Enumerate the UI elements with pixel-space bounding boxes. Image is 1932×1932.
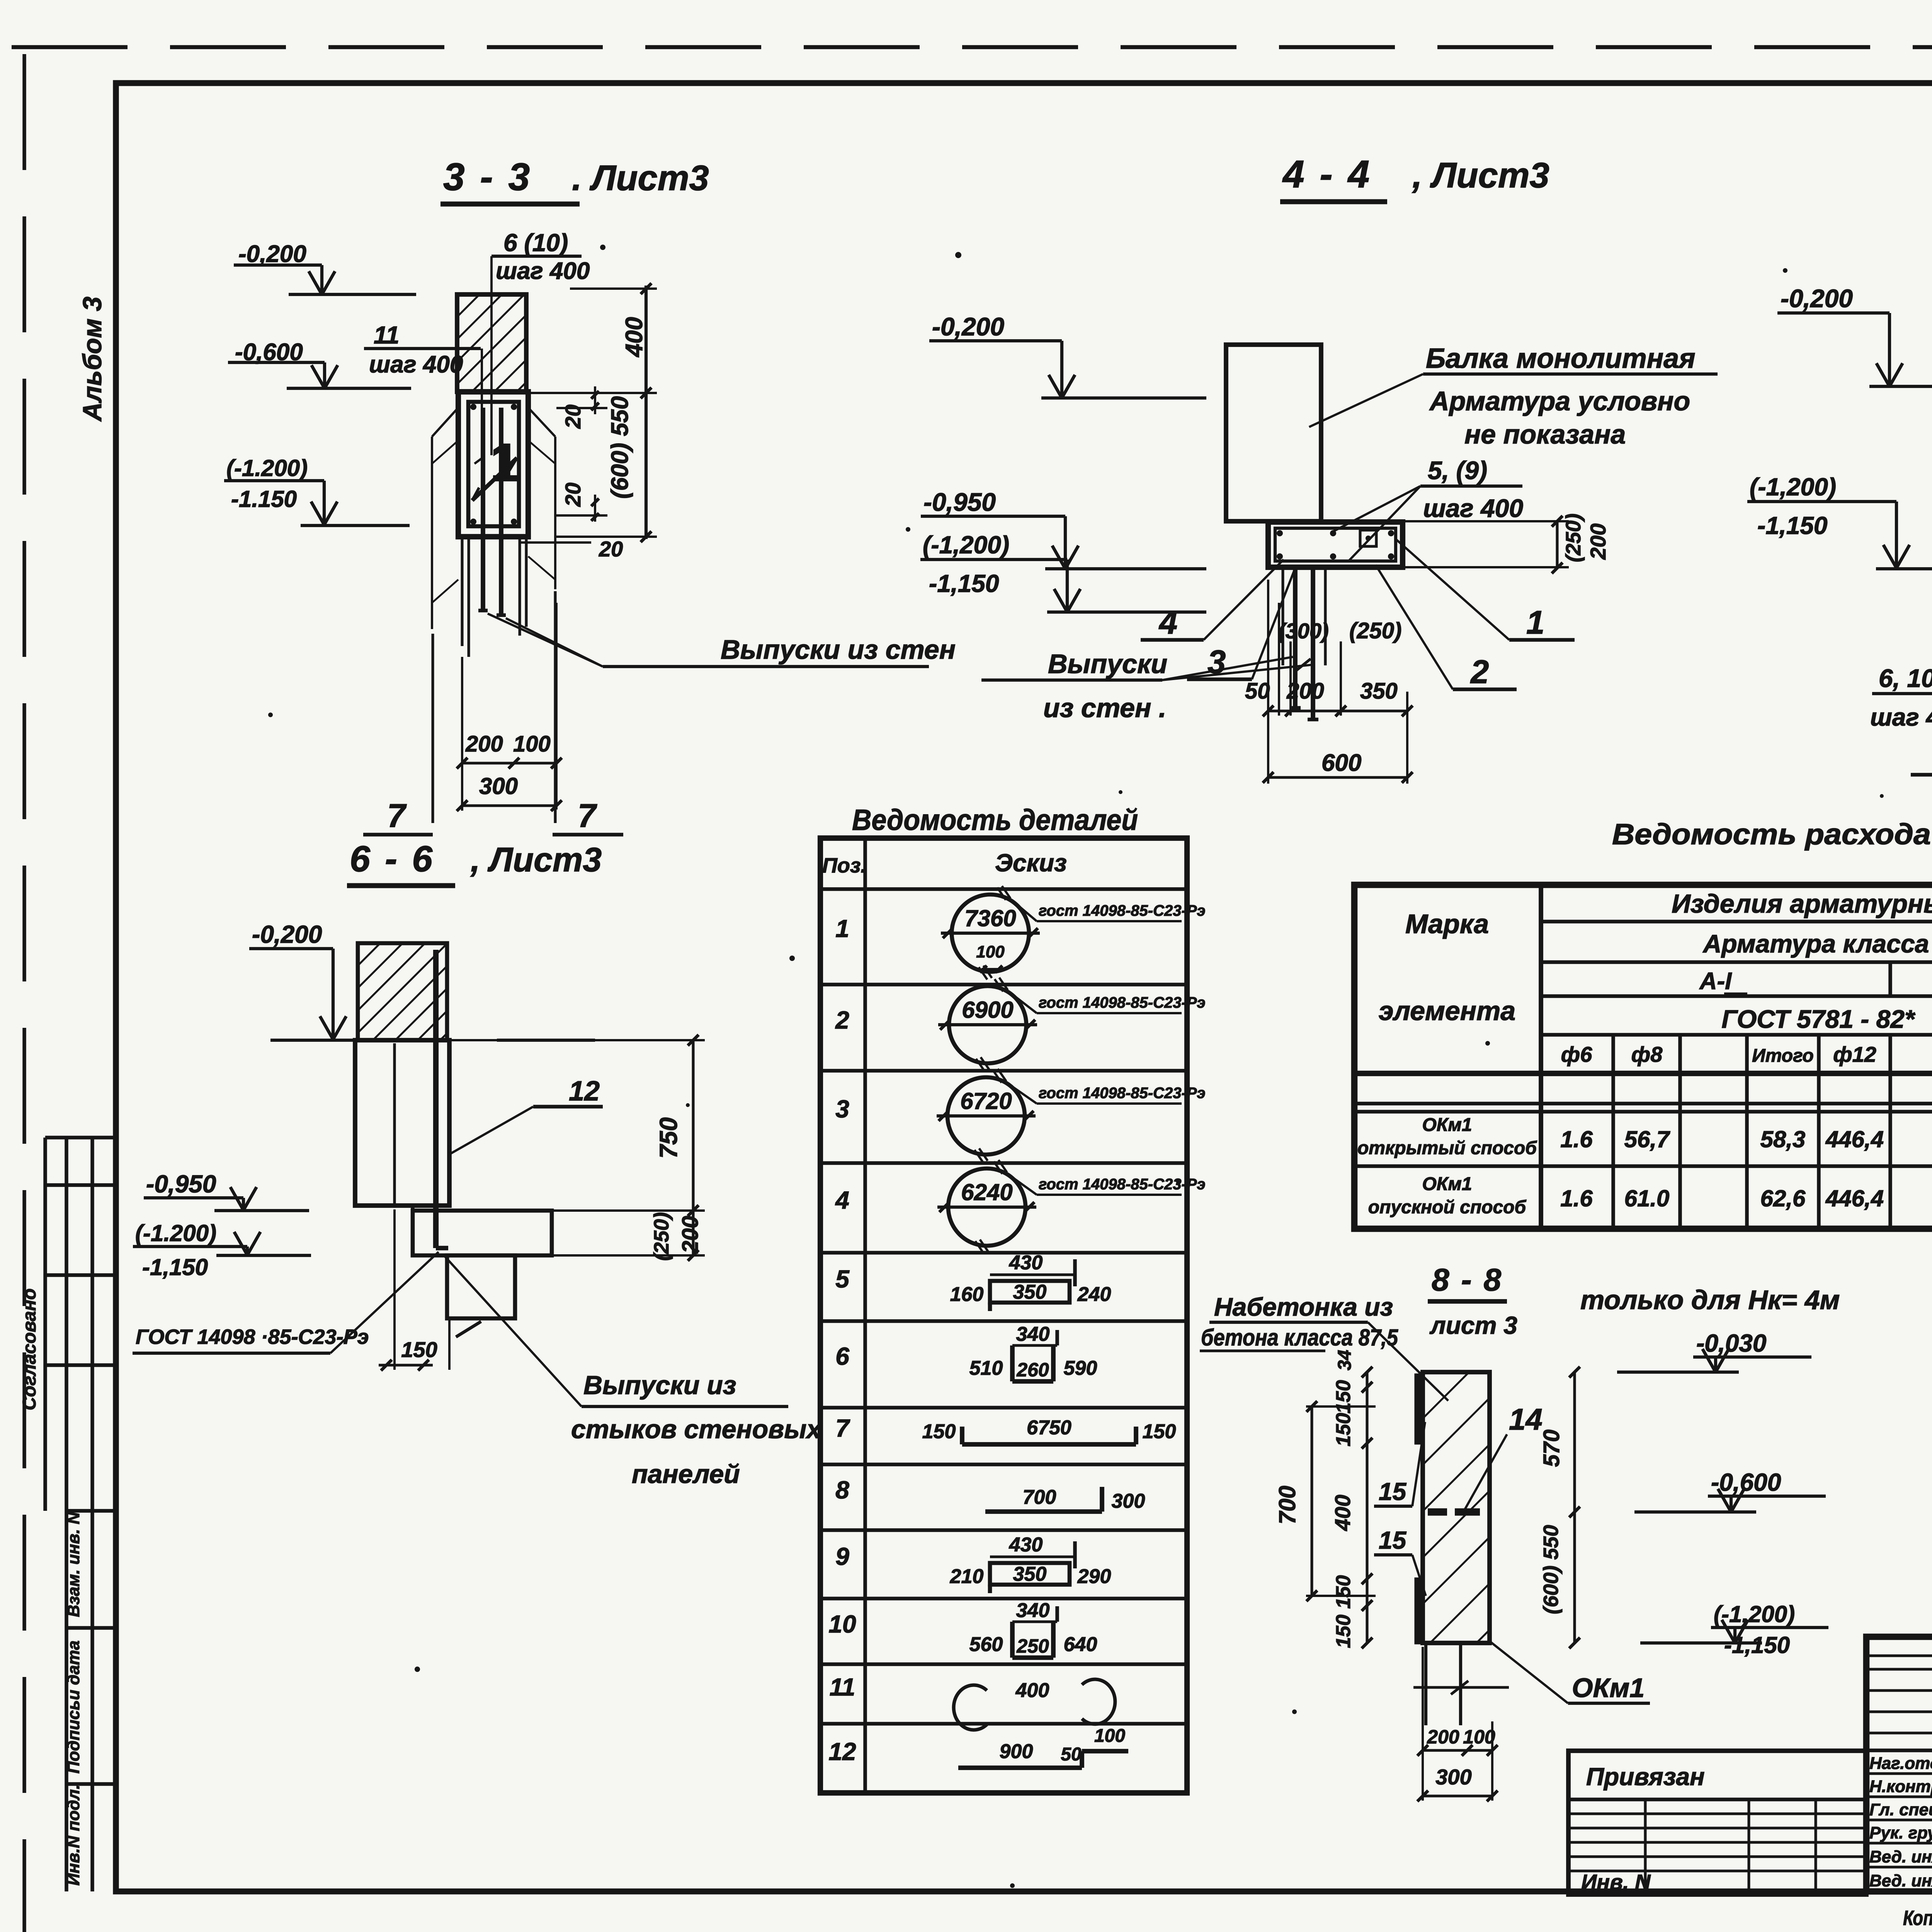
svg-text:6: 6 [835, 1342, 849, 1370]
svg-text:430: 430 [1009, 1534, 1043, 1556]
svg-text:350: 350 [1360, 679, 1398, 704]
svg-text:Рук. груп: Рук. груп [1869, 1823, 1932, 1842]
svg-text:-0,950: -0,950 [146, 1170, 216, 1198]
svg-text:5: 5 [835, 1265, 850, 1293]
svg-text:350: 350 [1013, 1563, 1047, 1585]
svg-text:640: 640 [1064, 1633, 1097, 1656]
svg-text:Итого: Итого [1752, 1046, 1814, 1066]
svg-text:290: 290 [1077, 1565, 1111, 1588]
svg-text:панелей: панелей [632, 1459, 740, 1489]
svg-text:3: 3 [835, 1095, 849, 1123]
svg-text:100: 100 [1463, 1726, 1495, 1748]
svg-text:Привязан: Привязан [1586, 1763, 1705, 1791]
svg-text:Изделия арматурные: Изделия арматурные [1672, 889, 1932, 918]
svg-text:200: 200 [678, 1216, 703, 1254]
svg-text:200: 200 [1286, 679, 1324, 704]
svg-text:Балка монолитная: Балка монолитная [1426, 343, 1696, 374]
svg-text:(-1.200): (-1.200) [135, 1220, 216, 1246]
svg-text:Арматура условно: Арматура условно [1429, 386, 1690, 416]
svg-text:-0,200: -0,200 [1781, 284, 1853, 313]
svg-text:210: 210 [950, 1565, 984, 1588]
svg-text:12: 12 [828, 1738, 856, 1765]
svg-text:-0,030: -0,030 [1696, 1329, 1766, 1357]
svg-text:700: 700 [1274, 1486, 1300, 1524]
svg-text:(250): (250) [650, 1212, 673, 1261]
svg-text:Инв. N: Инв. N [1581, 1870, 1651, 1894]
svg-text:11: 11 [830, 1673, 855, 1701]
svg-text:20: 20 [599, 537, 623, 561]
svg-text:58,3: 58,3 [1760, 1126, 1806, 1152]
svg-text:4 - 4: 4 - 4 [1282, 153, 1372, 196]
svg-text:750: 750 [655, 1117, 682, 1159]
svg-text:7: 7 [835, 1414, 850, 1442]
svg-text:560: 560 [969, 1633, 1003, 1656]
svg-text:А-I: А-I [1699, 968, 1732, 995]
svg-text:4: 4 [1158, 604, 1177, 641]
svg-text:8 - 8: 8 - 8 [1432, 1262, 1503, 1298]
svg-text:шаг 400: шаг 400 [369, 351, 463, 378]
svg-text:7: 7 [387, 798, 407, 834]
svg-text:61.0: 61.0 [1624, 1185, 1670, 1211]
svg-text:4: 4 [835, 1186, 849, 1214]
svg-text:шаг 400: шаг 400 [496, 258, 590, 284]
svg-text:150: 150 [1332, 1615, 1355, 1648]
svg-text:240: 240 [1077, 1283, 1111, 1306]
svg-text:(-1,200): (-1,200) [1750, 473, 1836, 501]
svg-text:1.6: 1.6 [1560, 1185, 1593, 1211]
svg-text:200: 200 [1586, 524, 1610, 560]
svg-text:-1,150: -1,150 [142, 1254, 208, 1280]
svg-text:400: 400 [1330, 1495, 1355, 1531]
svg-text:10: 10 [828, 1610, 856, 1638]
svg-text:(600) 550: (600) 550 [607, 396, 633, 498]
svg-text:150: 150 [1332, 1575, 1355, 1609]
svg-text:ОКм1: ОКм1 [1572, 1673, 1645, 1703]
svg-text:Выпуски из: Выпуски из [583, 1371, 736, 1400]
svg-text:ГОСТ 5781 - 82*: ГОСТ 5781 - 82* [1721, 1005, 1916, 1033]
svg-text:15: 15 [1379, 1478, 1407, 1505]
svg-text:-1,150: -1,150 [929, 570, 999, 597]
svg-text:340: 340 [1016, 1323, 1050, 1345]
svg-text:6720: 6720 [960, 1088, 1012, 1114]
svg-text:2: 2 [1470, 654, 1489, 690]
svg-text:Поз.: Поз. [822, 854, 866, 877]
svg-text:(300): (300) [1278, 619, 1329, 643]
svg-text:Ведомость расхода стали: Ведомость расхода стали на элемент, кг [1612, 818, 1932, 851]
svg-text:ОКм1: ОКм1 [1422, 1174, 1472, 1194]
svg-text:опускной способ: опускной способ [1368, 1197, 1527, 1218]
svg-text:Н.контр.: Н.контр. [1869, 1777, 1932, 1796]
svg-text:шаг 400: шаг 400 [1423, 494, 1523, 522]
svg-text:лист 3: лист 3 [1429, 1311, 1517, 1339]
svg-text:открытый способ: открытый способ [1357, 1138, 1537, 1158]
svg-text:100: 100 [1094, 1726, 1125, 1746]
svg-text:(600) 550: (600) 550 [1539, 1525, 1563, 1614]
svg-text:446,4: 446,4 [1825, 1185, 1884, 1211]
svg-text:Вед. инж: Вед. инж [1869, 1871, 1932, 1890]
svg-text:100: 100 [513, 731, 551, 757]
svg-text:Наг.отд.: Наг.отд. [1869, 1754, 1932, 1773]
svg-text:элемента: элемента [1379, 996, 1515, 1026]
svg-text:гост 14098-85-С23-Рэ: гост 14098-85-С23-Рэ [1039, 902, 1206, 919]
svg-text:5, (9): 5, (9) [1428, 456, 1487, 485]
svg-text:446,4: 446,4 [1825, 1126, 1884, 1152]
svg-text:300: 300 [1112, 1490, 1145, 1512]
svg-text:(-1,200): (-1,200) [1714, 1601, 1795, 1627]
svg-text:гост 14098-85-С23-Рэ: гост 14098-85-С23-Рэ [1039, 1176, 1206, 1193]
svg-text:Взам. инв. N: Взам. инв. N [64, 1512, 83, 1617]
svg-text:6240: 6240 [961, 1179, 1012, 1205]
svg-text:ф6: ф6 [1561, 1042, 1593, 1066]
svg-text:3 - 3: 3 - 3 [443, 155, 532, 199]
svg-text:6750: 6750 [1027, 1417, 1071, 1439]
svg-text:2: 2 [835, 1006, 849, 1034]
svg-text:20: 20 [561, 483, 585, 507]
svg-text:шаг 400: шаг 400 [1870, 703, 1932, 731]
svg-text:8: 8 [835, 1476, 849, 1504]
svg-text:260: 260 [1016, 1359, 1049, 1381]
svg-text:Набетонка из: Набетонка из [1214, 1293, 1393, 1321]
svg-text:-0,200: -0,200 [932, 312, 1004, 341]
svg-text:570: 570 [1539, 1430, 1564, 1467]
svg-text:400: 400 [1015, 1679, 1049, 1702]
svg-text:ОКм1: ОКм1 [1422, 1115, 1472, 1135]
svg-text:700: 700 [1023, 1486, 1056, 1509]
svg-text:6 (10): 6 (10) [503, 229, 568, 257]
svg-text:50: 50 [1245, 679, 1270, 704]
svg-text:-1.150: -1.150 [231, 486, 297, 512]
svg-text:350: 350 [1013, 1281, 1047, 1303]
svg-text:Подписьи дата: Подписьи дата [64, 1641, 83, 1774]
svg-text:не показана: не показана [1464, 419, 1626, 449]
svg-text:150: 150 [922, 1420, 956, 1443]
svg-text:только для Нк= 4м: только для Нк= 4м [1580, 1285, 1840, 1315]
svg-text:Гл. спец.: Гл. спец. [1869, 1800, 1932, 1819]
svg-text:, Лист3: , Лист3 [1412, 156, 1549, 195]
svg-text:340: 340 [1016, 1599, 1050, 1622]
svg-text:(-1,200): (-1,200) [923, 531, 1009, 559]
svg-text:12: 12 [569, 1076, 600, 1107]
svg-text:Согласовано: Согласовано [19, 1288, 40, 1410]
svg-text:гост 14098-85-С23-Рэ: гост 14098-85-С23-Рэ [1039, 1085, 1206, 1102]
svg-text:ф8: ф8 [1631, 1042, 1663, 1066]
svg-text:Вед. инж: Вед. инж [1869, 1847, 1932, 1866]
svg-text:Копировал Яни: Копировал Яни [1903, 1906, 1932, 1930]
svg-text:7: 7 [578, 798, 597, 834]
svg-text:6, 10: 6, 10 [1879, 664, 1932, 692]
svg-text:200: 200 [465, 731, 503, 757]
svg-text:6 - 6: 6 - 6 [350, 838, 435, 879]
svg-text:600: 600 [1321, 750, 1361, 776]
svg-text:Альбом 3: Альбом 3 [78, 296, 107, 422]
svg-text:6900: 6900 [962, 997, 1013, 1023]
svg-text:-0,950: -0,950 [923, 488, 996, 516]
svg-text:-0,200: -0,200 [238, 241, 306, 267]
svg-text:Арматура класса: Арматура класса [1702, 929, 1929, 958]
svg-text:150: 150 [1332, 1413, 1355, 1447]
svg-text:ГОСТ 14098 ·85-С23-Рэ: ГОСТ 14098 ·85-С23-Рэ [136, 1325, 369, 1349]
svg-text:Ведомость деталей: Ведомость деталей [852, 804, 1138, 837]
svg-text:1: 1 [1526, 604, 1544, 641]
svg-text:(-1.200): (-1.200) [226, 455, 308, 481]
svg-text:1.6: 1.6 [1560, 1126, 1593, 1152]
svg-text:900: 900 [1000, 1740, 1033, 1763]
svg-text:100: 100 [976, 942, 1005, 961]
svg-text:9: 9 [835, 1543, 849, 1570]
svg-text:50: 50 [1061, 1744, 1082, 1765]
svg-text:11: 11 [374, 321, 399, 349]
svg-text:(250): (250) [1562, 514, 1585, 562]
svg-text:510: 510 [969, 1357, 1003, 1379]
svg-text:Марка: Марка [1405, 909, 1489, 939]
svg-text:150: 150 [401, 1337, 437, 1362]
svg-text:(250): (250) [1349, 618, 1401, 643]
svg-text:-0,200: -0,200 [252, 920, 322, 948]
svg-text:400: 400 [621, 317, 648, 357]
svg-text:бетона класса 87,5: бетона класса 87,5 [1201, 1325, 1398, 1350]
svg-text:гост 14098-85-С23-Рэ: гост 14098-85-С23-Рэ [1039, 994, 1206, 1011]
svg-text:Инв.N подл.: Инв.N подл. [64, 1784, 83, 1886]
svg-text:250: 250 [1016, 1635, 1049, 1657]
svg-text:300: 300 [1435, 1765, 1471, 1789]
svg-text:300: 300 [479, 773, 518, 799]
svg-text:. Лист3: . Лист3 [572, 158, 709, 198]
svg-text:590: 590 [1064, 1357, 1097, 1379]
svg-text:150: 150 [1332, 1380, 1355, 1414]
svg-text:430: 430 [1009, 1252, 1043, 1274]
svg-text:ф12: ф12 [1833, 1042, 1876, 1066]
svg-text:Выпуски из стен: Выпуски из стен [721, 634, 956, 665]
svg-text:стыков стеновых: стыков стеновых [571, 1415, 822, 1444]
svg-text:1: 1 [835, 915, 849, 942]
svg-text:200: 200 [1427, 1726, 1459, 1748]
svg-text:150: 150 [1143, 1420, 1176, 1443]
svg-text:-1,150: -1,150 [1757, 512, 1827, 539]
svg-text:из стен .: из стен . [1043, 693, 1166, 723]
svg-text:34: 34 [1335, 1350, 1355, 1370]
svg-text:Выпуски: Выпуски [1048, 649, 1167, 679]
svg-text:160: 160 [950, 1283, 984, 1306]
svg-text:62,6: 62,6 [1760, 1185, 1806, 1211]
svg-text:7360: 7360 [964, 905, 1016, 931]
svg-text:15: 15 [1379, 1526, 1407, 1554]
svg-text:Эскиз: Эскиз [995, 849, 1067, 877]
svg-text:14: 14 [1509, 1402, 1543, 1436]
svg-text:, Лист3: , Лист3 [470, 840, 602, 879]
svg-text:56,7: 56,7 [1624, 1126, 1670, 1152]
